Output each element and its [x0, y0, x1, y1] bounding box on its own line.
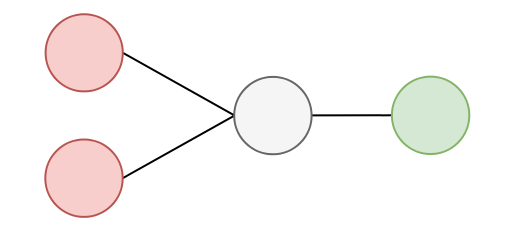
wire: edge from node C (center gray) to node D (right green) [312, 114, 392, 116]
node D: green circle right [392, 77, 469, 154]
node C: gray circle center [234, 77, 311, 154]
wire: edge from node A (top-left red) to node C (center gray) [123, 53, 235, 116]
wire: edge from node B (bottom-left red) to node C (center gray) [123, 116, 235, 179]
node A: red circle top-left [46, 14, 123, 91]
node B: red circle bottom-left [45, 140, 122, 217]
